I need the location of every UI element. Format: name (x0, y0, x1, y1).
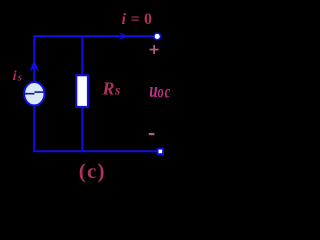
svg-text:is: is (13, 69, 22, 84)
svg-text:(c): (c) (79, 159, 106, 183)
